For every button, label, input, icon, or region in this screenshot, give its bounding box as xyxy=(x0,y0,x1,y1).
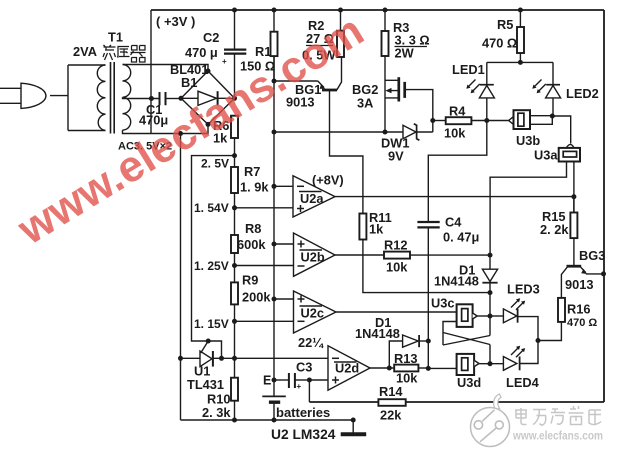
svg-text:LED2: LED2 xyxy=(566,86,599,101)
node BG3 emitter at right rail xyxy=(601,271,606,276)
node 1.15V tap xyxy=(232,319,237,324)
svg-text:2. 5V: 2. 5V xyxy=(201,157,229,171)
LED LED4 xyxy=(503,357,516,371)
battery E xyxy=(262,395,286,397)
label transformer chinese char bian xyxy=(103,45,116,60)
transformer T1 secondary xyxy=(123,65,131,131)
resistor R1 xyxy=(273,10,275,32)
svg-text:R14: R14 xyxy=(379,384,403,399)
wire 1.15V to U2c minus xyxy=(235,320,294,322)
resistor R6 xyxy=(231,116,238,138)
wire R1 bottom to BG1 emitter xyxy=(274,80,318,82)
node bridge bottom vertex xyxy=(206,122,211,127)
resistor R7 xyxy=(231,167,238,193)
node R1 at rail xyxy=(272,8,277,13)
svg-text:1. 54V: 1. 54V xyxy=(194,201,229,215)
svg-text:R4: R4 xyxy=(449,104,466,119)
wire secondary top to bridge AC top xyxy=(123,65,209,72)
wire 2.5V reference line to TL431 xyxy=(192,156,235,359)
optocoupler U3a xyxy=(566,144,574,147)
svg-text:LED1: LED1 xyxy=(452,62,485,77)
plug P1 xyxy=(0,87,21,89)
LED1 emission arrows xyxy=(468,80,480,93)
svg-text:3A: 3A xyxy=(357,96,373,111)
svg-text:R7: R7 xyxy=(244,164,260,179)
svg-text:2W: 2W xyxy=(395,46,415,61)
node C2 at rail xyxy=(232,8,237,13)
resistor R4 xyxy=(433,120,446,122)
svg-text:2. 2k: 2. 2k xyxy=(540,222,569,237)
capacitor C1 xyxy=(160,92,166,105)
wire U2a output xyxy=(335,196,574,198)
node BG2 source DW1 anode xyxy=(383,130,388,135)
node R10 at ground rail xyxy=(232,418,237,423)
svg-text:U2 LM324: U2 LM324 xyxy=(271,427,336,442)
op-amp U2d xyxy=(328,346,370,390)
resistor R3 xyxy=(384,10,386,31)
node C3 U2d plus xyxy=(307,378,312,383)
wire U3a bottom-left to R12 node column xyxy=(490,162,566,255)
wire bottom right rail y=402 xyxy=(309,401,604,403)
wire U3a bottom-right to R15 node xyxy=(573,162,575,213)
logo badge node left xyxy=(474,421,482,429)
op-amp U2c xyxy=(294,291,337,333)
svg-text:200k: 200k xyxy=(242,290,271,305)
transistor BG3 9013 xyxy=(567,265,582,268)
svg-text:R9: R9 xyxy=(242,273,258,288)
svg-text:U2b: U2b xyxy=(301,250,325,265)
svg-text:1N4148: 1N4148 xyxy=(355,326,400,341)
resistor R14 xyxy=(378,399,405,406)
capacitor C2 branch from +3V rail xyxy=(234,10,236,49)
op-amp U2a xyxy=(293,176,335,217)
node R12 right xyxy=(488,253,493,258)
LED3 emission arrows xyxy=(511,300,524,310)
node center tap xyxy=(149,96,154,101)
resistor R8 xyxy=(231,235,238,253)
ground symbol xyxy=(352,420,354,433)
svg-text:470 Ω: 470 Ω xyxy=(482,36,517,51)
LED LED2 xyxy=(552,62,554,84)
svg-text:+: + xyxy=(297,382,302,391)
node 2.5V xyxy=(232,153,237,158)
wire plug to transformer primary xyxy=(50,95,68,97)
svg-text:22¼: 22¼ xyxy=(298,335,324,350)
wire secondary center tap xyxy=(123,97,160,98)
resistor R12 xyxy=(384,252,410,259)
svg-text:R12: R12 xyxy=(384,238,407,253)
bridge rectifier B1 BL401 diamond xyxy=(181,71,235,124)
transistor BG1 9013 xyxy=(322,89,337,92)
node DW1 R4 BG2 gate xyxy=(430,118,435,123)
svg-text:9V: 9V xyxy=(388,149,404,164)
wire U3b node to U3a top xyxy=(552,116,570,144)
wire sense bus vertical x=274 xyxy=(273,56,275,396)
svg-text:R16: R16 xyxy=(567,302,590,317)
logo badge circle xyxy=(471,408,510,447)
node U3c output LED3 anode xyxy=(488,314,493,319)
wire junction to R16 xyxy=(538,322,561,341)
diode D1 1N4148 lower xyxy=(389,341,402,368)
svg-text:E: E xyxy=(263,374,271,388)
svg-text:( +3V ): ( +3V ) xyxy=(156,14,195,29)
wire U2c output to U3c xyxy=(336,311,457,313)
svg-text:T1: T1 xyxy=(108,30,123,45)
node bridge top vertex xyxy=(206,69,211,74)
svg-text:10k: 10k xyxy=(444,126,466,141)
svg-text:22k: 22k xyxy=(380,408,402,423)
svg-text:U3c: U3c xyxy=(431,296,454,311)
node R15 top U2a output xyxy=(571,194,576,199)
svg-text:U3b: U3b xyxy=(516,133,540,148)
LED4 emission arrows xyxy=(511,347,524,357)
svg-text:1N4148: 1N4148 xyxy=(434,274,479,289)
optocoupler U3b xyxy=(509,117,514,125)
label transformer chinese char qi xyxy=(131,46,146,63)
resistor R5 xyxy=(519,10,521,27)
svg-text:LED3: LED3 xyxy=(507,282,540,297)
svg-text:1. 15V: 1. 15V xyxy=(194,317,229,331)
node R1 bottom xyxy=(272,79,277,84)
wire secondary bottom to bridge AC bottom xyxy=(123,124,209,133)
resistor R2 xyxy=(340,10,342,31)
node R4 right LED1 cathode xyxy=(484,118,489,123)
svg-text:2VA: 2VA xyxy=(73,44,97,59)
svg-text:www.elecfans.com: www.elecfans.com xyxy=(512,431,603,443)
node bridge left vertex xyxy=(179,96,184,101)
svg-text:batteries: batteries xyxy=(276,405,330,420)
svg-text:U3a: U3a xyxy=(534,148,558,163)
wire right border (+3V down right side) xyxy=(603,10,605,402)
wire left rail xyxy=(180,134,182,421)
logo chinese wordmark xyxy=(515,406,601,425)
logo badge tail xyxy=(494,394,501,409)
svg-text:R13: R13 xyxy=(394,351,417,366)
logo badge node right xyxy=(495,421,503,429)
wire junction to LED4 cathode xyxy=(520,341,538,364)
resistor R15 xyxy=(573,197,575,213)
capacitor C3 xyxy=(274,379,289,381)
wire crossover between U3c and U3d xyxy=(443,322,457,346)
capacitor C4 xyxy=(428,121,487,222)
svg-text:1k: 1k xyxy=(369,222,384,237)
svg-text:1. 25V: 1. 25V xyxy=(194,259,229,273)
node U2d output D1 branch xyxy=(387,366,392,371)
svg-text:LED4: LED4 xyxy=(506,375,540,390)
svg-text:1. 9k: 1. 9k xyxy=(240,180,269,195)
op-amp U2b xyxy=(294,233,336,276)
resistor R13 xyxy=(394,365,418,372)
svg-text:10k: 10k xyxy=(386,260,408,275)
node LED cathode junction xyxy=(536,338,541,343)
svg-text:BG3: BG3 xyxy=(579,248,605,263)
wire U2d output xyxy=(370,367,394,369)
svg-text:U2d: U2d xyxy=(335,361,359,376)
wire 1.54V to U2a plus xyxy=(235,207,294,209)
wire R13 right to U3d input xyxy=(428,367,456,369)
LED2 emission arrows xyxy=(534,80,546,93)
svg-text:C4: C4 xyxy=(445,215,462,230)
transformer T1 core xyxy=(111,62,115,134)
wire top +3V rail xyxy=(151,9,604,11)
diode D1 1N4148 upper xyxy=(489,255,491,269)
svg-text:C2: C2 xyxy=(203,30,219,45)
resistor R10 xyxy=(231,378,238,401)
wire LED1 LED2 anode rail xyxy=(487,61,553,63)
wire sense bus tap to DW1 line xyxy=(274,131,403,133)
svg-text:U2c: U2c xyxy=(301,306,324,321)
transistor BG2 3A mosfet xyxy=(385,80,398,98)
svg-text:470 Ω: 470 Ω xyxy=(567,317,597,329)
wire bottom ground rail xyxy=(181,419,354,421)
label transformer chinese char ya xyxy=(117,47,130,58)
node 1.54V tap xyxy=(232,205,237,210)
zener DW1 9V xyxy=(403,125,416,138)
svg-text:TL431: TL431 xyxy=(187,377,224,392)
shunt regulator U1 TL431 xyxy=(181,357,201,359)
svg-text:U3d: U3d xyxy=(457,375,481,390)
resistor R11 xyxy=(359,214,366,240)
svg-text:+: + xyxy=(222,57,227,66)
svg-text:U2a: U2a xyxy=(300,191,324,206)
transformer T1 primary xyxy=(68,65,106,131)
svg-text:470 μ: 470 μ xyxy=(185,45,218,60)
resistor R9 xyxy=(231,282,238,304)
wire left border top segment xyxy=(150,10,152,134)
LED LED3 xyxy=(490,315,503,317)
svg-text:9013: 9013 xyxy=(565,277,593,292)
svg-text:0. 47μ: 0. 47μ xyxy=(443,230,479,245)
node U3d output LED4 anode xyxy=(488,361,493,366)
node left rail joins secondary bottom xyxy=(178,131,183,136)
logo badge trace lower xyxy=(480,428,496,442)
optocoupler U3d xyxy=(457,354,475,375)
wire U2b output to R12 xyxy=(335,254,384,256)
optocoupler U3c xyxy=(457,304,473,327)
svg-text:B1: B1 xyxy=(181,75,197,90)
svg-text:R8: R8 xyxy=(245,221,261,236)
node chain TL431 cathode xyxy=(232,356,237,361)
svg-text:R5: R5 xyxy=(497,17,513,32)
svg-text:C3: C3 xyxy=(296,360,312,375)
node bridge right vertex xyxy=(232,96,237,101)
node 1.25V tap xyxy=(232,263,237,268)
LED LED1 xyxy=(486,62,488,84)
resistor R16 xyxy=(558,298,565,322)
svg-text:(+8V): (+8V) xyxy=(312,173,344,188)
svg-text:2. 3k: 2. 3k xyxy=(202,405,231,420)
wire C3 node down to R14 rail xyxy=(308,380,310,402)
node LED2 U3b xyxy=(550,114,555,119)
wire 1.25V to U2b minus xyxy=(235,265,294,267)
logo badge trace upper xyxy=(482,410,494,422)
svg-text:600k: 600k xyxy=(237,237,266,252)
